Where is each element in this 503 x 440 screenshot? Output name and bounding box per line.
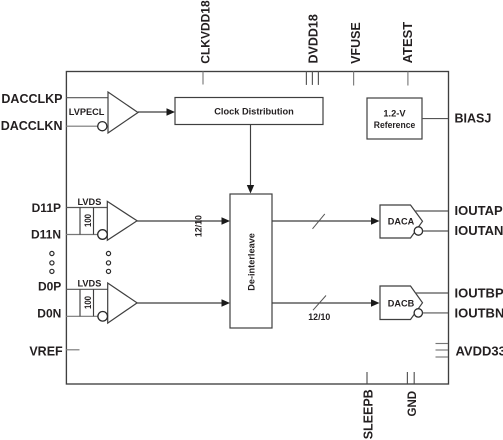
Clock Distribution block [175, 98, 323, 125]
svg-text:12/10: 12/10 [308, 312, 330, 322]
wire D11P into buffer [66, 207, 107, 209]
svg-text:100: 100 [83, 214, 93, 227]
svg-text:IOUTAN: IOUTAN [455, 223, 503, 238]
svg-text:CLKVDD18: CLKVDD18 [199, 0, 213, 64]
De-interleave block [230, 194, 272, 328]
pin DVDD18 tick 3 [317, 72, 319, 85]
wire reference to BIASJ pin [422, 118, 448, 120]
wire De-interleave to DACB with arrow [272, 302, 372, 304]
wire D11N into buffer [66, 234, 98, 236]
wire Clock Distribution down to De-interleave with arrow [250, 125, 252, 186]
wire DACB IOUTBN [423, 312, 449, 314]
clock buffer inverting input bubble [98, 122, 107, 131]
svg-text:De-interleave: De-interleave [247, 233, 257, 291]
termination resistor 100 lower left side [79, 289, 81, 316]
wire DACCLKN to clock buffer bubble [66, 125, 98, 127]
svg-text:D0N: D0N [37, 306, 61, 320]
svg-text:Reference: Reference [374, 120, 416, 131]
DACA block [380, 205, 423, 238]
LVDS buffer lower inverting bubble [98, 312, 108, 322]
svg-text:IOUTBP: IOUTBP [455, 285, 503, 300]
bus slash lower [313, 296, 326, 311]
svg-text:DVDD18: DVDD18 [307, 14, 321, 63]
wire DACB IOUTBP [416, 292, 448, 294]
svg-text:100: 100 [83, 296, 93, 309]
ellipsis dots left column [50, 251, 54, 273]
pin VFUSE tick [353, 72, 355, 86]
pin ATEST tick [407, 72, 409, 86]
svg-text:DACCLKN: DACCLKN [1, 119, 63, 133]
1.2-V Reference block [367, 98, 422, 139]
wire De-interleave to DACA with arrow [272, 220, 372, 222]
wire D0N into buffer [66, 315, 98, 317]
svg-text:VFUSE: VFUSE [349, 22, 363, 64]
svg-text:D11N: D11N [31, 227, 61, 241]
svg-text:ATEST: ATEST [400, 22, 415, 64]
svg-text:GND: GND [407, 391, 419, 417]
chip outer boundary box [66, 72, 448, 385]
svg-text:LVDS: LVDS [78, 279, 102, 289]
wire upper LVDS buffer to De-interleave with arrow [137, 220, 222, 222]
termination resistor 100 upper right side [93, 208, 95, 235]
svg-text:VREF: VREF [29, 345, 63, 359]
wire DACCLKP to clock buffer [66, 97, 108, 99]
LVDS input buffer U3 triangle lower [108, 283, 137, 323]
svg-text:12/10: 12/10 [193, 215, 203, 237]
pin CLKVDD18 tick [202, 72, 204, 85]
pin DVDD18 tick 1 [305, 72, 307, 85]
wire clock buffer to Clock Distribution with arrow [138, 111, 167, 113]
svg-text:IOUTBN: IOUTBN [455, 305, 503, 320]
wire DACA IOUTAP [416, 210, 449, 212]
termination resistor 100 upper left side [79, 208, 81, 235]
svg-text:BIASJ: BIASJ [455, 111, 492, 125]
svg-text:DACCLKP: DACCLKP [1, 92, 62, 106]
DACA complementary output bubble [414, 227, 422, 235]
wire D0P into buffer [66, 288, 108, 290]
pin DVDD18 tick 2 [311, 72, 313, 85]
pin AVDD33 tick 3 [436, 356, 449, 358]
bus slash upper [313, 214, 325, 229]
pin VREF tick [66, 349, 80, 351]
LVDS buffer upper inverting bubble [98, 230, 108, 240]
svg-text:DACA: DACA [388, 216, 415, 227]
svg-text:IOUTAP: IOUTAP [455, 203, 503, 218]
svg-text:SLEEPB: SLEEPB [362, 389, 376, 439]
svg-text:LVPECL: LVPECL [69, 107, 105, 117]
svg-text:LVDS: LVDS [78, 197, 102, 207]
LVDS input buffer U2 triangle upper [107, 201, 137, 240]
ellipsis dots right column [106, 251, 110, 273]
pin GND tick 2 [413, 372, 415, 384]
svg-text:AVDD33: AVDD33 [456, 344, 503, 359]
clock input buffer U1 triangle [108, 92, 138, 133]
pin GND tick 1 [406, 372, 408, 384]
svg-text:D0P: D0P [38, 280, 61, 294]
svg-text:Clock Distribution: Clock Distribution [214, 107, 294, 117]
svg-text:D11P: D11P [32, 201, 61, 215]
pin AVDD33 tick 2 [436, 349, 449, 351]
DACB block [380, 286, 423, 320]
svg-text:DACB: DACB [388, 298, 415, 309]
wire lower LVDS buffer to De-interleave with arrow [137, 302, 222, 304]
pin AVDD33 tick 1 [436, 343, 449, 345]
pin SLEEPB tick [366, 372, 368, 384]
termination resistor 100 lower right side [93, 289, 95, 316]
DACB complementary output bubble [414, 309, 422, 317]
svg-text:1.2-V: 1.2-V [383, 108, 406, 118]
wire DACA IOUTAN [423, 230, 448, 232]
